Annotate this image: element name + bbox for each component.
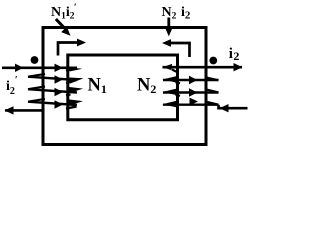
MMF arrow left (N1 i2')	[58, 39, 86, 56]
label N1i2' (top left)	[51, 3, 77, 22]
wire: left output (i2') at bottom of N1	[5, 106, 77, 114]
polarity dot left	[31, 56, 39, 64]
winding N1 turn 2	[28, 75, 84, 83]
winding N2 turn 2	[162, 76, 218, 84]
winding N1 return diagonal 1 (hidden behind limb)	[66, 69, 71, 72]
label N1 (winding name)	[88, 76, 107, 97]
wire: right output (i2) at top of N2	[162, 63, 242, 71]
label N2i2 (top right)	[162, 5, 191, 22]
core inner boundary (window)	[68, 55, 178, 120]
winding N2 turn 4	[162, 98, 218, 108]
winding N1 turn 3	[28, 87, 83, 97]
label i2' (left side)	[6, 75, 18, 97]
winding N1 turn 4	[28, 99, 83, 109]
winding N2 return diagonal 3 (hidden behind limb)	[176, 95, 181, 96]
label N2 (winding name)	[137, 76, 156, 97]
label i2 (right side)	[229, 46, 240, 63]
MMF arrow right (N2 i2)	[162, 39, 190, 57]
winding N2 return diagonal 2 (hidden behind limb)	[176, 82, 181, 83]
polarity dot right	[209, 57, 217, 65]
core outer boundary	[43, 28, 206, 145]
winding N2 return diagonal 1 (hidden behind limb)	[172, 70, 179, 73]
svg-text:i2: i2	[229, 46, 240, 63]
label N2 i2 pointer arrow	[165, 18, 172, 37]
label N1 i2' pointer arrow	[56, 19, 71, 36]
wire: right input at bottom of N2	[219, 104, 248, 112]
winding N1 return diagonal 2 (hidden behind limb)	[66, 81, 71, 84]
winding N2 turn 3	[162, 88, 218, 96]
wire: left input at top of N1	[2, 64, 82, 72]
winding N1 return diagonal 3 (hidden behind limb)	[66, 93, 71, 96]
